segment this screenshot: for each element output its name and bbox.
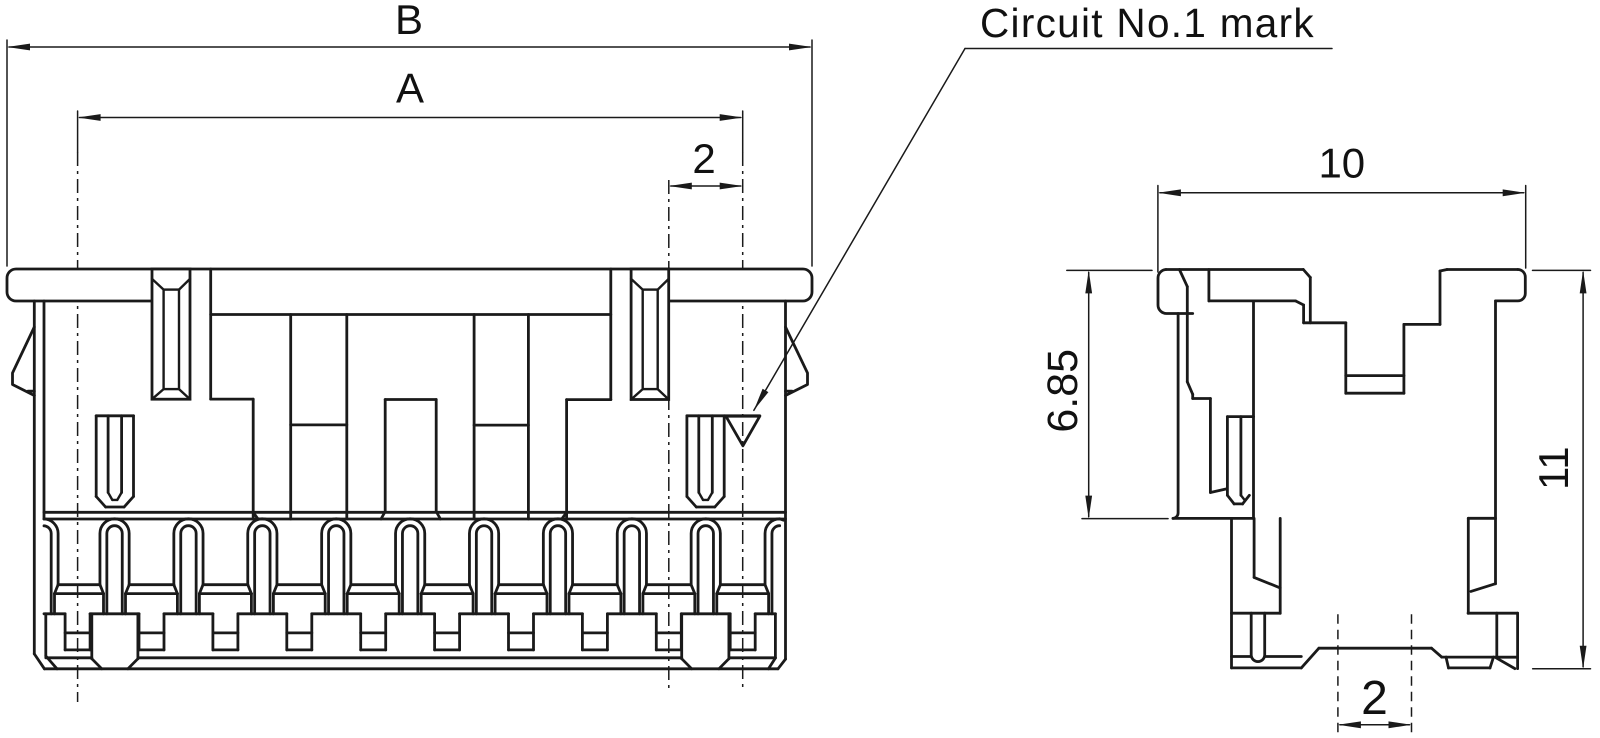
right wall half tooth bbox=[765, 519, 784, 614]
side right column block bbox=[1468, 301, 1495, 613]
svg-text:2: 2 bbox=[1361, 672, 1388, 725]
svg-text:11: 11 bbox=[1530, 446, 1577, 490]
dimension 10 line bbox=[1158, 189, 1526, 196]
dimension 6.85 extension lines bbox=[1067, 270, 1168, 518]
cavity left step bbox=[211, 269, 258, 519]
dimension 2 extension chain line bbox=[668, 180, 670, 691]
tooth 8 bbox=[617, 519, 646, 614]
side foot window bbox=[1251, 613, 1265, 661]
rail top edge bbox=[44, 612, 775, 615]
side right block bbox=[1496, 270, 1526, 301]
tooth 2 bbox=[174, 519, 203, 614]
tooth 7 bbox=[543, 519, 572, 614]
dimension A text bbox=[396, 65, 424, 112]
dimension 2 extension dashed lines (side) bbox=[1338, 614, 1412, 737]
dimension 10 text bbox=[1318, 140, 1365, 187]
dimension A line bbox=[78, 114, 743, 121]
center column B bbox=[474, 315, 528, 520]
side bottom shelf line bbox=[1173, 517, 1254, 520]
polarizing key 2 bbox=[631, 269, 669, 400]
side top edge right bbox=[1447, 268, 1518, 271]
dimension 11 extension lines bbox=[1533, 270, 1591, 668]
dimension 10 extension lines bbox=[1158, 186, 1526, 273]
left wall barb bbox=[13, 327, 35, 396]
side shelf right of tab bbox=[1404, 270, 1447, 325]
hex slot right top edge / triangle base line bbox=[687, 414, 760, 417]
side rail top segments bbox=[1232, 612, 1518, 615]
floor line upper bbox=[58, 583, 765, 586]
hex slot right bbox=[687, 416, 724, 507]
side rim groove bbox=[1209, 270, 1304, 323]
tooth 9 bbox=[691, 519, 720, 614]
side right foot bbox=[1496, 613, 1518, 668]
right wall barb bbox=[786, 327, 808, 396]
side right pad bbox=[1442, 657, 1496, 668]
dimension A extension chain lines bbox=[78, 111, 743, 702]
front flange bbox=[7, 269, 812, 305]
cavity top edge bbox=[211, 313, 611, 316]
svg-text:2: 2 bbox=[692, 135, 715, 182]
side tooth stem bbox=[1254, 518, 1280, 613]
rail inner corners bbox=[46, 614, 776, 669]
right wall outer bbox=[778, 301, 786, 669]
floor line lower bbox=[55, 592, 769, 595]
tooth 1 bbox=[100, 519, 129, 614]
side latch arm bbox=[1179, 270, 1226, 493]
svg-text:6.85: 6.85 bbox=[1039, 349, 1087, 433]
left wall inner bbox=[43, 301, 46, 519]
leader line bbox=[754, 49, 1332, 411]
side bottom recess bbox=[1319, 648, 1442, 657]
pentagon block right bbox=[682, 614, 729, 669]
dimension 11 text bbox=[1530, 446, 1577, 490]
hex slot left bbox=[96, 416, 133, 507]
dimension 2 text (side) bbox=[1361, 672, 1388, 725]
dimension 11 line bbox=[1580, 270, 1587, 668]
tooth 3 bbox=[248, 519, 277, 614]
inner ledge lines bbox=[44, 512, 786, 519]
side front plane edge bbox=[1252, 301, 1255, 519]
svg-text:B: B bbox=[395, 0, 423, 43]
dimension B text bbox=[395, 0, 423, 43]
dimension 2 line (side) bbox=[1338, 721, 1412, 728]
svg-text:Circuit No.1 mark: Circuit No.1 mark bbox=[980, 0, 1315, 46]
tooth 4 bbox=[322, 519, 351, 614]
svg-text:A: A bbox=[396, 65, 424, 112]
side center tab bbox=[1346, 323, 1404, 393]
center column A bbox=[291, 315, 347, 520]
tooth 6 bbox=[469, 519, 498, 614]
pentagon block left bbox=[92, 614, 138, 669]
center slot block bbox=[381, 400, 440, 520]
side left foot outline bbox=[1232, 518, 1319, 668]
polarizing key 1 bbox=[152, 269, 190, 399]
side top edge left bbox=[1166, 268, 1303, 271]
rail windows bbox=[65, 614, 755, 650]
side wall edge bbox=[1173, 314, 1178, 519]
dimension 6.85 text bbox=[1039, 349, 1087, 433]
tooth 5 bbox=[396, 519, 425, 614]
left wall outer bbox=[34, 301, 44, 669]
side mating notch right bbox=[1303, 270, 1346, 323]
side flange strip bbox=[1158, 270, 1193, 314]
leader text Circuit No.1 mark bbox=[980, 0, 1315, 46]
dimension 2 text (front) bbox=[692, 135, 715, 182]
cavity right step bbox=[562, 269, 611, 519]
svg-text:10: 10 bbox=[1318, 140, 1365, 187]
dimension 6.85 line bbox=[1085, 270, 1092, 518]
rail bottom edge bbox=[44, 667, 778, 670]
left wall half tooth bbox=[44, 519, 58, 614]
dimension B extension lines bbox=[7, 40, 812, 266]
dimension 2 line (front) bbox=[669, 183, 743, 190]
side hex slot bbox=[1227, 417, 1253, 504]
dimension B line bbox=[7, 44, 812, 51]
circuit No.1 triangle mark bbox=[726, 416, 760, 446]
rail inner bottom line bbox=[46, 656, 776, 659]
